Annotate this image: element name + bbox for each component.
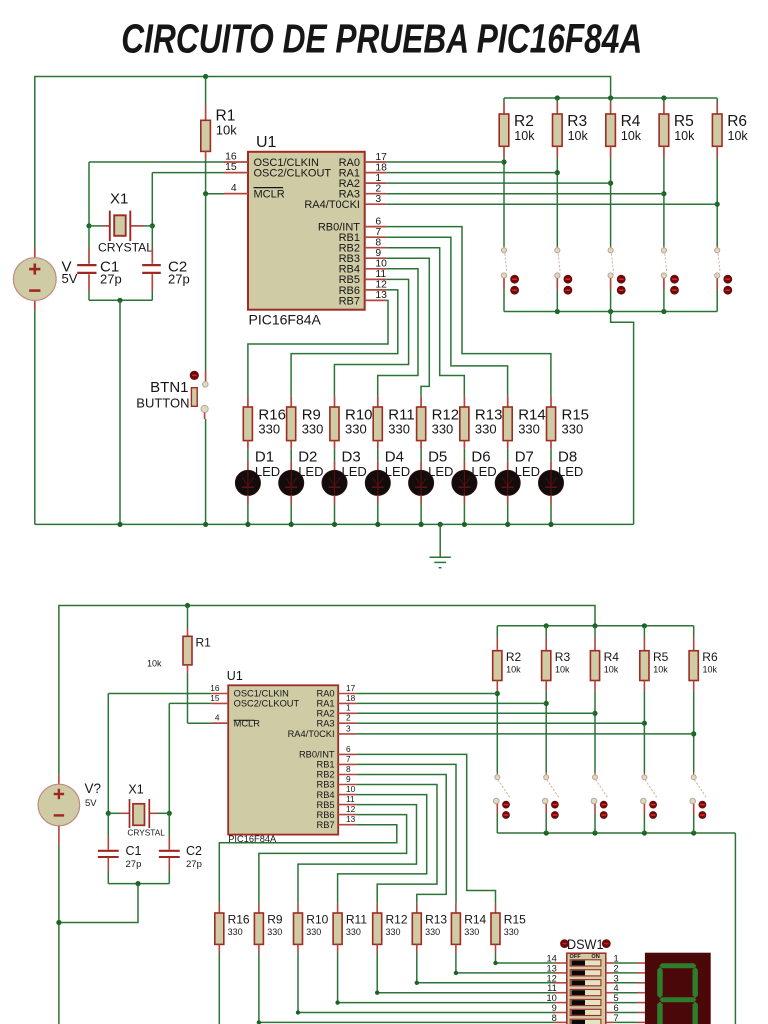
svg-text:D6: D6 [471, 448, 490, 465]
svg-text:330: 330 [302, 422, 324, 437]
svg-text:U1: U1 [227, 669, 243, 683]
svg-text:10k: 10k [604, 664, 619, 674]
svg-text:D2: D2 [298, 448, 317, 465]
svg-text:RA4/T0CKI: RA4/T0CKI [288, 729, 335, 739]
svg-text:RB6: RB6 [317, 810, 335, 820]
svg-text:13: 13 [346, 814, 356, 824]
svg-text:CIRCUITO DE PRUEBA PIC16F84A: CIRCUITO DE PRUEBA PIC16F84A [121, 16, 642, 62]
svg-text:330: 330 [475, 422, 497, 437]
svg-text:3: 3 [614, 973, 619, 983]
svg-text:R14: R14 [464, 912, 486, 926]
svg-text:6: 6 [346, 744, 351, 754]
svg-text:RA4/T0CKI: RA4/T0CKI [304, 199, 360, 211]
svg-text:RB7: RB7 [317, 820, 335, 830]
svg-text:10k: 10k [703, 664, 718, 674]
svg-text:8: 8 [552, 1013, 557, 1023]
svg-text:2: 2 [614, 963, 619, 973]
svg-text:CRYSTAL: CRYSTAL [98, 240, 153, 254]
svg-text:R15: R15 [504, 912, 526, 926]
svg-text:5V: 5V [85, 798, 97, 809]
svg-text:RB0/INT: RB0/INT [299, 750, 335, 760]
svg-text:DSW1: DSW1 [567, 936, 604, 952]
svg-text:6: 6 [614, 1003, 619, 1013]
svg-text:330: 330 [432, 422, 454, 437]
svg-text:X1: X1 [110, 191, 128, 208]
svg-text:V?: V? [85, 781, 102, 796]
svg-text:R4: R4 [604, 650, 620, 664]
svg-text:10k: 10k [147, 659, 162, 669]
svg-text:5V: 5V [62, 271, 78, 286]
svg-text:R12: R12 [386, 912, 408, 926]
svg-text:RA1: RA1 [317, 699, 335, 709]
svg-text:RB2: RB2 [317, 770, 335, 780]
svg-text:C2: C2 [186, 844, 202, 858]
svg-text:R3: R3 [555, 650, 571, 664]
svg-text:330: 330 [346, 927, 361, 937]
svg-text:R9: R9 [267, 912, 283, 926]
svg-text:330: 330 [464, 927, 479, 937]
svg-text:X1: X1 [128, 782, 143, 796]
svg-text:PIC16F84A: PIC16F84A [249, 312, 322, 328]
svg-text:330: 330 [386, 927, 401, 937]
svg-text:D5: D5 [428, 448, 447, 465]
svg-text:R2: R2 [514, 113, 534, 130]
svg-text:OSC1/CLKIN: OSC1/CLKIN [234, 689, 289, 699]
svg-text:RA2: RA2 [317, 709, 335, 719]
svg-text:R6: R6 [727, 113, 747, 130]
svg-text:330: 330 [345, 422, 367, 437]
svg-text:16: 16 [225, 152, 237, 163]
svg-text:7: 7 [614, 1013, 619, 1023]
svg-text:7: 7 [346, 754, 351, 764]
svg-text:R16: R16 [228, 912, 250, 926]
svg-text:8: 8 [346, 764, 351, 774]
svg-text:1: 1 [614, 954, 619, 964]
svg-text:330: 330 [267, 927, 282, 937]
svg-text:10: 10 [546, 993, 556, 1003]
svg-text:15: 15 [225, 162, 237, 173]
svg-text:13: 13 [546, 963, 556, 973]
svg-text:15: 15 [210, 693, 220, 703]
svg-text:ON: ON [591, 954, 599, 960]
svg-text:RA0: RA0 [317, 689, 335, 699]
svg-text:10: 10 [346, 784, 356, 794]
svg-text:OSC2/CLKOUT: OSC2/CLKOUT [254, 168, 332, 180]
svg-text:RB7: RB7 [339, 295, 360, 307]
svg-text:C1: C1 [126, 844, 142, 858]
svg-text:330: 330 [388, 422, 410, 437]
svg-text:330: 330 [258, 422, 280, 437]
svg-text:27p: 27p [168, 271, 190, 286]
svg-text:14: 14 [546, 954, 556, 964]
svg-text:R4: R4 [621, 113, 641, 130]
svg-text:17: 17 [346, 683, 356, 693]
svg-text:D3: D3 [342, 448, 361, 465]
svg-text:27p: 27p [186, 859, 202, 870]
svg-text:4: 4 [215, 713, 220, 723]
svg-text:4: 4 [614, 983, 619, 993]
svg-text:10k: 10k [621, 129, 642, 143]
svg-text:16: 16 [210, 683, 220, 693]
svg-text:330: 330 [562, 422, 584, 437]
svg-text:RB4: RB4 [317, 790, 335, 800]
svg-text:330: 330 [228, 927, 243, 937]
svg-text:10k: 10k [653, 664, 668, 674]
svg-text:10k: 10k [674, 129, 695, 143]
svg-text:10k: 10k [514, 129, 535, 143]
svg-text:10k: 10k [728, 129, 749, 143]
svg-text:R11: R11 [346, 912, 367, 926]
svg-text:D8: D8 [558, 448, 577, 465]
svg-text:5: 5 [614, 993, 619, 1003]
svg-text:OFF: OFF [570, 954, 582, 960]
svg-text:R1: R1 [196, 636, 212, 650]
svg-text:10k: 10k [555, 664, 570, 674]
svg-text:R3: R3 [567, 113, 587, 130]
svg-text:11: 11 [547, 983, 557, 993]
svg-text:R13: R13 [425, 912, 447, 926]
svg-text:27p: 27p [126, 859, 142, 870]
svg-text:10k: 10k [568, 129, 589, 143]
svg-text:9: 9 [552, 1003, 557, 1013]
svg-text:11: 11 [346, 794, 355, 804]
svg-text:MCLR: MCLR [254, 189, 285, 201]
svg-text:12: 12 [346, 804, 356, 814]
svg-text:R5: R5 [674, 113, 694, 130]
svg-text:D4: D4 [385, 448, 404, 465]
svg-text:330: 330 [518, 422, 540, 437]
svg-text:RB1: RB1 [317, 760, 335, 770]
svg-text:BTN1: BTN1 [150, 379, 188, 396]
svg-text:R5: R5 [653, 650, 669, 664]
svg-text:RB5: RB5 [317, 800, 335, 810]
svg-text:12: 12 [546, 973, 556, 983]
svg-text:R6: R6 [702, 650, 718, 664]
svg-text:U1: U1 [256, 134, 277, 151]
svg-text:3: 3 [346, 723, 351, 733]
svg-text:D1: D1 [255, 448, 274, 465]
svg-text:27p: 27p [100, 271, 122, 286]
svg-text:R2: R2 [506, 650, 522, 664]
svg-text:10k: 10k [216, 122, 237, 137]
svg-text:330: 330 [425, 927, 440, 937]
svg-text:BUTTON: BUTTON [136, 396, 189, 411]
svg-text:4: 4 [231, 183, 237, 194]
svg-text:OSC2/CLKOUT: OSC2/CLKOUT [234, 699, 300, 709]
svg-text:D7: D7 [515, 448, 534, 465]
svg-text:330: 330 [504, 927, 519, 937]
svg-text:9: 9 [346, 774, 351, 784]
svg-text:RA3: RA3 [317, 718, 335, 728]
svg-text:10k: 10k [506, 664, 521, 674]
svg-text:CRYSTAL: CRYSTAL [127, 828, 165, 838]
svg-text:R10: R10 [306, 912, 328, 926]
svg-text:RB3: RB3 [317, 780, 335, 790]
svg-text:330: 330 [306, 927, 321, 937]
